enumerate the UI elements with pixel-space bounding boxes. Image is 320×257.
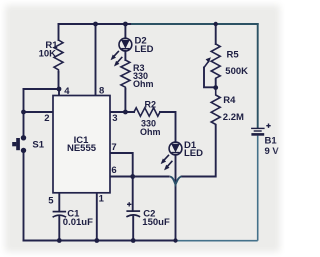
wire left rail upper xyxy=(23,89,25,137)
node pin2 left rail xyxy=(21,110,26,115)
node pin7 pin6 C2 xyxy=(130,174,135,179)
svg-text:R4: R4 xyxy=(223,95,236,106)
wire C1 bottom lead xyxy=(58,217,60,241)
wire R5 top lead xyxy=(215,24,217,44)
node R5 top rail xyxy=(214,22,218,26)
svg-text:0.01uF: 0.01uF xyxy=(63,217,93,228)
svg-text:NE555: NE555 xyxy=(67,143,97,154)
IC IC1 body NE555 xyxy=(53,96,110,193)
resistor R4 xyxy=(211,88,220,125)
wire C1 top lead pin5 xyxy=(58,193,60,212)
wire pin1 xyxy=(96,193,98,241)
wire D2 cathode lead xyxy=(124,51,126,60)
wire top rail V+ right xyxy=(132,23,258,25)
wire R5 bottom lead xyxy=(215,79,217,87)
svg-text:5: 5 xyxy=(48,196,54,207)
svg-text:150uF: 150uF xyxy=(142,217,170,228)
wire R5 wiper link xyxy=(204,68,216,88)
wire C2 bottom lead xyxy=(132,217,134,241)
svg-text:7: 7 xyxy=(111,142,116,153)
resistor R3 xyxy=(121,60,130,89)
svg-text:500K: 500K xyxy=(225,66,248,77)
svg-text:10K: 10K xyxy=(39,49,57,60)
node C1 ground xyxy=(57,238,62,243)
wire pin8 xyxy=(95,24,97,96)
svg-text:B1: B1 xyxy=(265,136,278,147)
node R1 pin4 xyxy=(57,87,62,92)
svg-text:S1: S1 xyxy=(32,140,44,151)
R5 wiper arrowhead xyxy=(206,57,211,63)
svg-text:1: 1 xyxy=(99,193,105,204)
capacitor C2 polarized xyxy=(126,202,140,217)
wire pin6 xyxy=(110,176,169,178)
svg-text:2.2M: 2.2M xyxy=(223,112,244,123)
wire D2 anode lead xyxy=(124,24,126,38)
wire top rail V+ left xyxy=(59,23,133,25)
wire R1 top lead xyxy=(58,24,60,40)
wire R1 bottom lead xyxy=(58,72,60,89)
svg-text:4: 4 xyxy=(64,86,70,97)
wire pin6 right segment xyxy=(182,125,216,177)
resistor R5 potentiometer xyxy=(211,44,220,79)
svg-text:R5: R5 xyxy=(227,50,240,61)
capacitor C1 xyxy=(53,212,67,218)
wire battery positive lead xyxy=(257,24,259,127)
LED D2 xyxy=(111,38,132,66)
node D2 top rail xyxy=(123,22,128,27)
wire R3 bottom lead xyxy=(124,89,126,112)
svg-text:R2: R2 xyxy=(145,99,157,109)
wire R5 wiper arrow shaft xyxy=(204,61,209,67)
wire pin3 xyxy=(110,111,134,113)
wire bottom ground rail xyxy=(24,240,176,242)
node R5 R4 wiper xyxy=(213,85,218,90)
wire D1 cathode to ground rail xyxy=(175,155,177,241)
wire ground rail right segment (teal) xyxy=(176,240,258,242)
svg-text:LED: LED xyxy=(135,44,154,55)
wire left rail lower xyxy=(23,151,25,241)
svg-text:2: 2 xyxy=(44,113,49,124)
node C2 ground xyxy=(131,238,136,243)
resistor R1 xyxy=(54,40,63,72)
LED D1 xyxy=(161,142,182,170)
resistor R2 xyxy=(134,108,160,116)
wire pin7 xyxy=(110,153,133,177)
wire C2 top lead xyxy=(132,177,134,211)
battery B1 plates xyxy=(251,124,271,135)
wire pin2 xyxy=(24,111,54,113)
wire crossover notch at D1 cathode xyxy=(170,177,182,185)
switch S1 pushbutton xyxy=(12,135,26,153)
wire pin4 stub xyxy=(58,89,60,96)
svg-text:Ohm: Ohm xyxy=(133,79,154,89)
node pin1 ground xyxy=(94,238,99,243)
svg-text:6: 6 xyxy=(111,165,116,176)
wire R2 to D1 xyxy=(160,112,176,142)
svg-text:Ohm: Ohm xyxy=(140,127,161,137)
svg-text:LED: LED xyxy=(184,148,203,159)
svg-text:3: 3 xyxy=(112,113,117,124)
node R3 pin3 xyxy=(123,110,128,115)
wire battery negative lead (teal) xyxy=(257,136,259,241)
node pin8 top rail xyxy=(93,22,98,27)
svg-text:8: 8 xyxy=(99,85,104,96)
node D1 ground xyxy=(173,238,177,242)
svg-text:9 V: 9 V xyxy=(265,146,280,157)
wire pin4 horizontal xyxy=(24,88,60,90)
